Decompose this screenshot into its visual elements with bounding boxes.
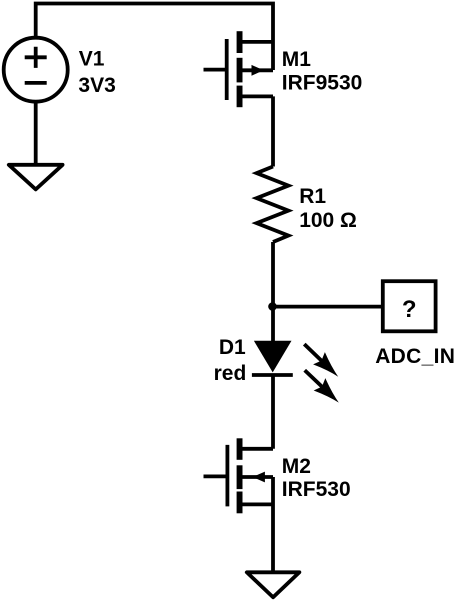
svg-text:IRF9530: IRF9530 bbox=[282, 72, 363, 95]
svg-text:R1: R1 bbox=[299, 185, 326, 208]
svg-text:D1: D1 bbox=[219, 336, 246, 359]
svg-text:?: ? bbox=[402, 296, 417, 323]
svg-text:ADC_IN: ADC_IN bbox=[375, 345, 454, 368]
svg-text:100 Ω: 100 Ω bbox=[299, 209, 357, 232]
svg-text:3V3: 3V3 bbox=[78, 74, 115, 97]
svg-text:red: red bbox=[214, 362, 247, 385]
svg-text:IRF530: IRF530 bbox=[282, 478, 351, 501]
svg-text:M2: M2 bbox=[282, 455, 311, 478]
svg-text:V1: V1 bbox=[79, 47, 105, 70]
svg-text:M1: M1 bbox=[282, 48, 311, 71]
